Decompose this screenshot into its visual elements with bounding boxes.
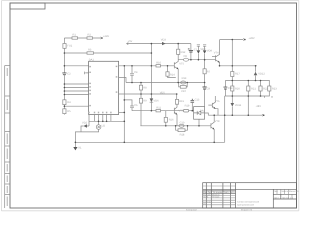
svg-text:R21: R21 bbox=[251, 87, 256, 90]
svg-text:VD8: VD8 bbox=[200, 48, 206, 51]
transistor VT4 bbox=[216, 40, 220, 66]
node +5V arrow bbox=[127, 43, 129, 45]
resistor R16 bbox=[164, 117, 167, 122]
svg-text:C6: C6 bbox=[134, 104, 138, 107]
wire ground bus K bbox=[75, 141, 224, 143]
diode VD2 bbox=[83, 124, 87, 127]
wire rail F2 bbox=[225, 80, 269, 82]
capacitor C6 bbox=[130, 106, 134, 108]
svg-text:C10: C10 bbox=[180, 121, 185, 124]
wire +28V rail bbox=[220, 39, 243, 41]
svg-text:DA1: DA1 bbox=[89, 59, 95, 62]
wire input vertical top bbox=[63, 38, 65, 44]
wire rail E bbox=[119, 65, 152, 67]
svg-text:R2: R2 bbox=[88, 34, 92, 37]
svg-text:U2: U2 bbox=[102, 125, 106, 128]
svg-text:C13: C13 bbox=[195, 98, 200, 101]
resistor R3 bbox=[87, 52, 94, 54]
wire IC pin 106 bbox=[64, 105, 88, 107]
svg-text:VD2: VD2 bbox=[82, 121, 88, 124]
svg-text:Формат A3: Формат A3 bbox=[241, 209, 253, 212]
wire zener branch bbox=[81, 121, 89, 132]
svg-text:R13: R13 bbox=[182, 77, 187, 80]
transistor VT8 bbox=[211, 115, 214, 142]
svg-text:R23: R23 bbox=[272, 87, 277, 90]
svg-text:Лист: Лист bbox=[274, 196, 279, 199]
fuse FU1 bbox=[63, 44, 66, 49]
resistor R21 bbox=[247, 86, 250, 91]
wire cap C6 leg bbox=[124, 100, 132, 111]
svg-text:DA2: DA2 bbox=[200, 109, 206, 112]
resistor R14 bbox=[166, 72, 169, 76]
capacitor C8 bbox=[184, 58, 189, 61]
wire R20 leads bbox=[231, 81, 233, 97]
wire R14 leads bbox=[168, 66, 176, 78]
wire R22 leads bbox=[260, 81, 262, 97]
svg-text:R15: R15 bbox=[179, 100, 184, 103]
svg-text:R4: R4 bbox=[67, 101, 71, 104]
svg-text:VD11: VD11 bbox=[235, 104, 242, 107]
svg-text:+5V: +5V bbox=[128, 40, 133, 43]
svg-text:VD3: VD3 bbox=[161, 39, 167, 42]
wire IC pin right x123.7 vertical bbox=[123, 66, 125, 143]
wire rail E base bbox=[151, 65, 174, 67]
svg-text:VT8: VT8 bbox=[215, 120, 220, 123]
optocoupler U2 inner mark bbox=[97, 126, 100, 129]
wire rail L -28V bbox=[208, 114, 262, 116]
svg-text:C4: C4 bbox=[134, 71, 138, 74]
svg-text:VT7: VT7 bbox=[179, 109, 184, 112]
wire R23 leads bbox=[268, 81, 270, 97]
wire bbox=[63, 48, 65, 73]
svg-text:R19: R19 bbox=[185, 104, 190, 107]
svg-text:R3: R3 bbox=[88, 49, 92, 52]
resistor R13 bbox=[181, 81, 186, 84]
resistor R18 parallel bbox=[176, 126, 188, 130]
transistor U2 bbox=[96, 125, 101, 130]
wire R21 leads bbox=[247, 81, 249, 116]
diode VD3 bbox=[162, 42, 166, 45]
svg-text:R1: R1 bbox=[73, 34, 77, 37]
wire vertical x191 C7 leg bbox=[190, 44, 192, 60]
svg-text:VD7: VD7 bbox=[181, 90, 187, 93]
resistor R1 bbox=[72, 37, 78, 39]
svg-text:R11: R11 bbox=[156, 106, 161, 109]
drawing frame bbox=[10, 3, 297, 208]
resistor R2 bbox=[87, 37, 93, 39]
svg-text:R22: R22 bbox=[263, 87, 268, 90]
wire R9 leads bbox=[140, 94, 142, 126]
capacitor C11 plates bbox=[197, 45, 200, 46]
transistor U2 circle branch bbox=[98, 121, 100, 124]
svg-text:VD9: VD9 bbox=[207, 50, 213, 53]
IC DA1 pin marks bbox=[88, 66, 117, 114]
svg-text:Утв.: Утв. bbox=[203, 203, 208, 206]
wire C14 leg bbox=[224, 81, 226, 97]
capacitor C13 bbox=[191, 99, 195, 102]
wire VT4 base stub bbox=[212, 56, 216, 58]
svg-text:VT5: VT5 bbox=[179, 63, 184, 66]
svg-text:C8: C8 bbox=[184, 55, 188, 58]
resistor R19 bbox=[183, 109, 188, 112]
capacitor C14 bbox=[224, 87, 228, 89]
node -28V arrow bbox=[262, 114, 264, 116]
wire rail F bbox=[126, 82, 205, 84]
svg-text:Лит.: Лит. bbox=[274, 190, 278, 193]
svg-text:R5: R5 bbox=[67, 110, 71, 113]
svg-text:+28V: +28V bbox=[249, 37, 255, 40]
resistor R17 bbox=[231, 72, 234, 77]
resistor R5 bbox=[63, 109, 66, 114]
capacitor C4 bbox=[130, 73, 134, 75]
resistor R15 bbox=[175, 99, 178, 104]
wire vertical x178.6 bbox=[177, 44, 179, 60]
wire rail J bbox=[225, 95, 270, 97]
svg-text:R16: R16 bbox=[169, 118, 174, 121]
resistor R8 bbox=[139, 85, 142, 90]
resistor R9 bbox=[139, 98, 142, 103]
svg-text:R17: R17 bbox=[235, 73, 240, 76]
node +24V arrow bbox=[100, 37, 102, 39]
svg-text:R8: R8 bbox=[143, 86, 147, 89]
resistor R10 bbox=[156, 65, 161, 67]
wire IC right pin low bbox=[119, 111, 125, 113]
diode VD8 bbox=[197, 50, 201, 53]
capacitor C12 plates bbox=[203, 45, 206, 46]
svg-text:C2: C2 bbox=[67, 73, 71, 76]
wire VD8 leads bbox=[197, 46, 199, 60]
resistor R20 bbox=[231, 86, 234, 91]
wire J stubs bbox=[265, 96, 273, 98]
wire DA2 bottom pin bbox=[198, 119, 200, 126]
svg-text:R20: R20 bbox=[235, 87, 240, 90]
svg-text:FU1: FU1 bbox=[67, 45, 72, 48]
wire column x232 upper bbox=[231, 40, 233, 81]
diode VD9 bbox=[203, 50, 207, 53]
left margin strip boxes bbox=[5, 66, 10, 209]
wire bbox=[63, 75, 65, 115]
svg-text:Листов: Листов bbox=[282, 196, 290, 199]
diode DA2 zener bbox=[194, 111, 205, 115]
op-amp U1 / IC DA1 box bbox=[89, 61, 119, 114]
capacitor C9 bbox=[203, 87, 207, 89]
svg-text:VD5: VD5 bbox=[160, 91, 166, 94]
top-left designation box bbox=[10, 3, 45, 9]
svg-text:R18: R18 bbox=[180, 134, 185, 137]
wire rail G bbox=[119, 93, 177, 95]
svg-text:VD12: VD12 bbox=[258, 72, 265, 75]
svg-text:R12: R12 bbox=[181, 51, 186, 54]
capacitor C7 bbox=[188, 49, 193, 52]
wire R16 leads bbox=[165, 111, 167, 126]
svg-text:C9: C9 bbox=[207, 87, 211, 90]
node +28V arrow bbox=[243, 38, 245, 40]
svg-text:C7: C7 bbox=[194, 49, 198, 52]
wire rail E left (IC pin) bbox=[64, 65, 88, 67]
wire x204 column bbox=[204, 60, 206, 107]
diode VD6 bbox=[150, 98, 154, 102]
svg-text:X1: X1 bbox=[78, 147, 82, 150]
svg-text:VT6: VT6 bbox=[215, 100, 220, 103]
wire row I bbox=[132, 110, 194, 112]
svg-text:Пров.: Пров. bbox=[203, 196, 209, 199]
svg-text:VD6: VD6 bbox=[154, 100, 160, 103]
wire IC bottom bus bbox=[89, 120, 124, 122]
title block text smudges bbox=[186, 190, 299, 212]
resistor R23 bbox=[268, 86, 271, 91]
transistor VT7 bbox=[174, 104, 177, 126]
wire VD9 leads bbox=[204, 46, 206, 60]
resistor R7 bbox=[203, 69, 206, 74]
svg-text:Масса: Масса bbox=[282, 190, 289, 193]
wire K up link bbox=[224, 96, 226, 142]
wire vertical x151 bbox=[150, 44, 152, 94]
resistor R11 bbox=[156, 110, 161, 112]
wire IC bottom pins bbox=[89, 115, 111, 122]
resistor R12 bbox=[177, 49, 180, 54]
wire +24V rail bbox=[64, 37, 100, 39]
wire VD12 leads bbox=[255, 66, 257, 81]
left strip rotated text smudges bbox=[6, 68, 8, 206]
wire R15 top bbox=[176, 94, 178, 99]
wire VD11 leads bbox=[231, 96, 233, 115]
capacitor C10 bbox=[179, 124, 184, 127]
svg-text:C14: C14 bbox=[228, 87, 233, 90]
wire DA2 right pin bbox=[205, 113, 209, 115]
ground bbox=[74, 142, 76, 147]
wire cap C4 leg bbox=[131, 66, 133, 83]
transistor emitter arrows bbox=[175, 61, 219, 130]
wire R8 leads bbox=[140, 83, 142, 95]
wire rail H bbox=[140, 125, 211, 127]
resistor R4 bbox=[63, 100, 66, 105]
svg-text:R9: R9 bbox=[143, 100, 147, 103]
svg-text:принципиальная: принципиальная bbox=[237, 204, 255, 207]
transistor VT5 bbox=[174, 60, 178, 83]
pin stub gnd bbox=[85, 72, 89, 75]
svg-text:Копировал: Копировал bbox=[186, 209, 198, 212]
svg-text:Петров: Петров bbox=[212, 196, 220, 199]
svg-text:+24V: +24V bbox=[103, 35, 109, 38]
diode VD7 body bbox=[180, 86, 186, 89]
wire IC pin y77.5 bbox=[119, 78, 126, 83]
wire IC left pin rows bbox=[64, 84, 88, 95]
diode VD7 parallel bbox=[179, 83, 188, 87]
shunt reg DA2 box bbox=[194, 107, 205, 120]
resistor R22 bbox=[259, 86, 262, 91]
capacitor C2 bbox=[62, 73, 66, 75]
resistor R18 body bbox=[178, 129, 185, 132]
diode VD12 bbox=[254, 72, 258, 76]
wire rail D bbox=[178, 59, 215, 61]
wire VT6 base bbox=[208, 104, 212, 106]
title block bbox=[203, 183, 297, 208]
svg-text:-28V: -28V bbox=[256, 105, 262, 108]
wire +5V rail bbox=[127, 43, 191, 45]
reference labels bbox=[67, 34, 277, 150]
diode VD11 bbox=[231, 103, 235, 107]
svg-text:R10: R10 bbox=[156, 61, 161, 64]
svg-text:VT4: VT4 bbox=[214, 51, 219, 54]
svg-text:R7: R7 bbox=[207, 70, 211, 73]
svg-text:Схема электрическая: Схема электрическая bbox=[237, 201, 260, 204]
wire bbox=[150, 94, 154, 111]
wire bbox=[75, 129, 98, 142]
wire rail E right bbox=[220, 65, 257, 67]
wire R3 row bbox=[64, 52, 151, 54]
wire C13 leg bbox=[191, 102, 193, 111]
svg-text:Масштаб: Масштаб bbox=[289, 190, 299, 193]
transistor VT6 bbox=[212, 96, 218, 115]
svg-text:R14: R14 bbox=[170, 73, 175, 76]
